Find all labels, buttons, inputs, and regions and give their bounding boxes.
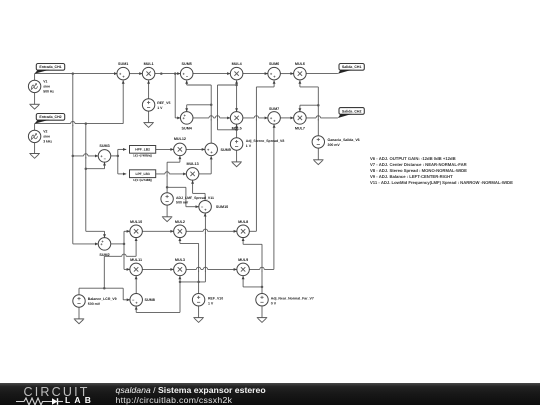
svg-text:REF_V10: REF_V10 [208, 297, 223, 301]
svg-text:1/(1+(s/7488)): 1/(1+(s/7488)) [133, 178, 152, 181]
svg-text:V8 - ADJ. Stereo Spread : MONO: V8 - ADJ. Stereo Spread : MONO-NORMAL-WI… [370, 168, 467, 173]
svg-text:ADJ_LMF_Spread_V11: ADJ_LMF_Spread_V11 [176, 196, 214, 200]
svg-text:Entrada_CH1: Entrada_CH1 [39, 65, 61, 69]
svg-text:SUM9: SUM9 [221, 148, 231, 152]
svg-text:sine: sine [43, 85, 50, 89]
svg-text:MUL4: MUL4 [232, 62, 242, 66]
svg-text:MUL2: MUL2 [175, 220, 185, 224]
svg-text:V9 - ADJ. Balance : LEFT-CENTE: V9 - ADJ. Balance : LEFT-CENTER-RIGHT [370, 174, 453, 179]
svg-text:MUL9: MUL9 [238, 258, 248, 262]
svg-text:1 V: 1 V [246, 144, 251, 148]
svg-text:SUM4: SUM4 [182, 126, 192, 130]
svg-text:V2: V2 [43, 130, 47, 134]
svg-text:SUM6: SUM6 [269, 62, 279, 66]
svg-text:SUM1: SUM1 [118, 62, 128, 66]
svg-text:SUM2: SUM2 [99, 253, 109, 257]
svg-text:Balance_LCR_V9: Balance_LCR_V9 [88, 297, 117, 301]
svg-text:500 mV: 500 mV [88, 302, 100, 306]
svg-text:LPF_LB3: LPF_LB3 [135, 172, 149, 176]
svg-text:Entrada_CH2: Entrada_CH2 [39, 115, 61, 119]
svg-text:sine: sine [43, 135, 50, 139]
svg-text:MUL3: MUL3 [175, 258, 185, 262]
svg-text:MUL6: MUL6 [295, 62, 305, 66]
svg-text:SUM3: SUM3 [99, 144, 109, 148]
svg-text:SUM5: SUM5 [182, 62, 192, 66]
svg-text:MUL13: MUL13 [187, 162, 199, 166]
svg-text:1 V: 1 V [208, 301, 213, 305]
svg-text:500 Hz: 500 Hz [43, 89, 54, 93]
svg-text:MUL7: MUL7 [295, 126, 305, 130]
svg-text:MUL8: MUL8 [238, 220, 248, 224]
svg-text:Adj_Near_Normal_Far_V7: Adj_Near_Normal_Far_V7 [271, 297, 314, 301]
svg-text:3 kHz: 3 kHz [43, 139, 52, 143]
svg-text:500 mV: 500 mV [176, 201, 188, 205]
svg-text:Adj_Stereo_Spread_V8: Adj_Stereo_Spread_V8 [246, 139, 285, 143]
svg-text:SUM7: SUM7 [269, 107, 279, 111]
svg-text:0 V: 0 V [271, 301, 276, 305]
svg-text:REF_V5: REF_V5 [157, 101, 170, 105]
svg-text:SUM10: SUM10 [216, 205, 228, 209]
svg-text:V1: V1 [43, 80, 47, 84]
svg-text:300 mV: 300 mV [328, 143, 340, 147]
svg-text:HPF_LB2: HPF_LB2 [135, 148, 150, 152]
svg-text:MUL12: MUL12 [174, 137, 186, 141]
svg-text:V6 - ADJ. OUTPUT GAIN: -12dB 0: V6 - ADJ. OUTPUT GAIN: -12dB 0dB +12dB [370, 156, 456, 161]
svg-text:SUM8: SUM8 [145, 298, 155, 302]
svg-text:Salida_CH2: Salida_CH2 [342, 109, 362, 113]
svg-text:V11 - ADJ. LowMid Frequency(LM: V11 - ADJ. LowMid Frequency(LMF) Spread … [370, 180, 513, 185]
svg-text:MUL10: MUL10 [130, 220, 142, 224]
svg-text:Ganacia_Salida_V6: Ganacia_Salida_V6 [328, 138, 360, 142]
svg-text:1 V: 1 V [157, 106, 162, 110]
svg-text:1/(1+(7488/s)): 1/(1+(7488/s)) [133, 154, 152, 157]
svg-text:V7 - ADJ. Center Distance : NE: V7 - ADJ. Center Distance : NEAR-NORMAL-… [370, 162, 467, 167]
svg-text:MUL5: MUL5 [232, 126, 242, 130]
svg-text:MUL11: MUL11 [130, 258, 142, 262]
svg-text:Salida_CH1: Salida_CH1 [342, 65, 362, 69]
svg-text:MUL1: MUL1 [144, 62, 154, 66]
